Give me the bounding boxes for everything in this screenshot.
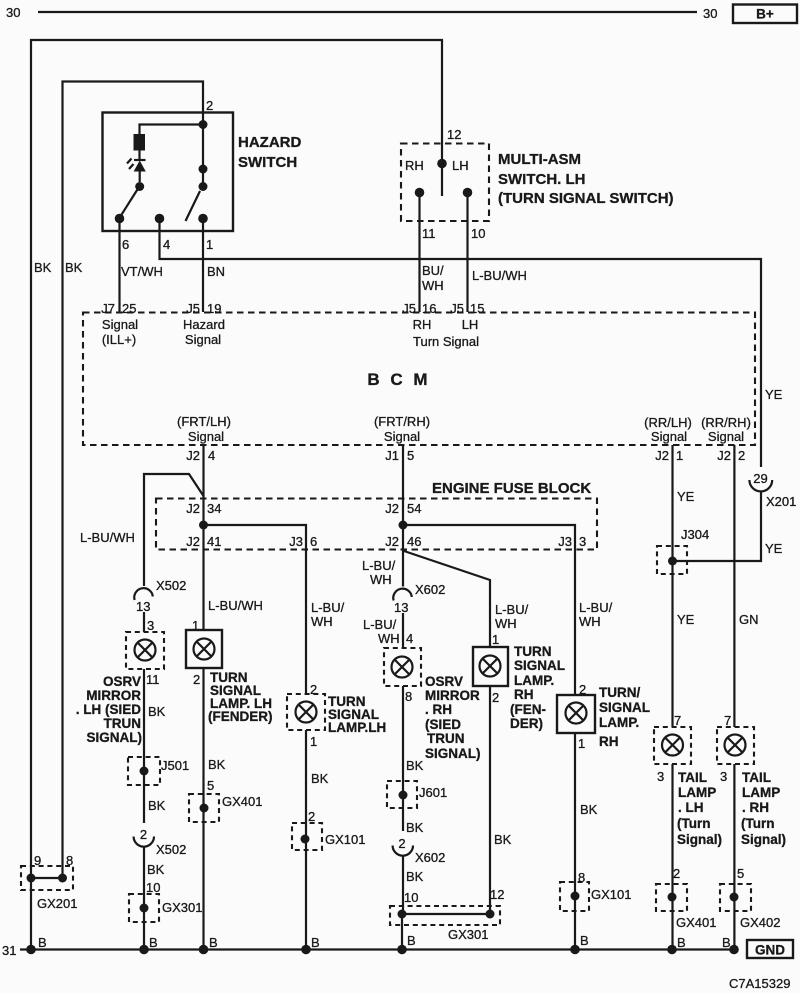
svg-text:3: 3: [720, 769, 727, 784]
pin (FRT/LH) Signal J2 4: [177, 414, 231, 463]
svg-text:1: 1: [578, 736, 585, 751]
wire GX201 to ground rail: [30, 878, 32, 950]
svg-text:J601: J601: [419, 785, 447, 800]
hazard right switch blade: [186, 191, 201, 221]
svg-text:OSRV: OSRV: [425, 674, 463, 689]
svg-text:TURN/: TURN/: [599, 685, 640, 700]
svg-text:5: 5: [407, 448, 414, 463]
hazard right contacts: [199, 165, 208, 192]
wire fender RH pin2 to GX301: [489, 686, 491, 914]
ground rail junctions: [26, 945, 739, 955]
label TAIL LAMP . LH (Turn Signal): [677, 770, 722, 847]
wire BCM J2/2 to tail lamp RH: [733, 445, 735, 727]
svg-text:J2: J2: [186, 501, 200, 516]
wire branch to X502 mirror LH: [144, 474, 204, 586]
pin J2 46: [385, 534, 421, 549]
svg-text:BK: BK: [406, 820, 424, 835]
wire X502 to mirror lamp: [143, 612, 145, 632]
svg-text:J2: J2: [717, 448, 731, 463]
svg-text:46: 46: [407, 534, 421, 549]
pin (RR/RH) Signal J2 2: [701, 415, 751, 463]
svg-text:11: 11: [146, 672, 160, 687]
svg-text:J3: J3: [289, 534, 303, 549]
svg-text:B C M: B C M: [367, 370, 430, 389]
svg-text:WH: WH: [378, 631, 400, 646]
svg-text:J1: J1: [385, 448, 399, 463]
svg-text:(ILL+): (ILL+): [102, 332, 136, 347]
svg-text:2: 2: [193, 672, 200, 687]
svg-text:31: 31: [2, 943, 16, 958]
svg-text:B: B: [580, 933, 589, 948]
svg-text:10: 10: [471, 226, 485, 241]
pin J5 15 LH: [413, 301, 484, 349]
svg-text:WH: WH: [579, 614, 601, 629]
svg-text:LAMP: LAMP: [678, 785, 716, 800]
ground GND box: [747, 940, 793, 958]
svg-text:L-BU/: L-BU/: [495, 602, 529, 617]
svg-text:X602: X602: [415, 582, 445, 597]
svg-text:X602: X602: [415, 850, 445, 865]
wire rail 30 (B+): [38, 11, 697, 13]
svg-text:BK: BK: [34, 260, 52, 275]
lamp TURN SIGNAL LAMP. RH (FENDER): [473, 647, 508, 686]
svg-text:30: 30: [703, 6, 717, 21]
svg-text:VT/WH: VT/WH: [121, 264, 163, 279]
engine fuse block box: [156, 480, 597, 550]
svg-text:1: 1: [492, 632, 499, 647]
svg-text:J2: J2: [385, 501, 399, 516]
svg-text:BK: BK: [208, 757, 226, 772]
svg-text:2: 2: [206, 98, 213, 113]
wire fuse LH to J3/6: [204, 525, 307, 694]
hazard pin 4 contact: [155, 214, 165, 224]
svg-text:2: 2: [398, 836, 405, 851]
svg-text:BK: BK: [147, 862, 165, 877]
svg-text:L-BU/: L-BU/: [362, 558, 396, 573]
svg-text:Signal): Signal): [741, 832, 786, 847]
svg-text:L-BU/: L-BU/: [579, 600, 613, 615]
svg-text:11: 11: [422, 226, 436, 241]
svg-text:TAIL: TAIL: [742, 770, 771, 785]
svg-text:41: 41: [207, 534, 221, 549]
svg-text:Signal: Signal: [102, 317, 138, 332]
svg-text:TAIL: TAIL: [678, 770, 707, 785]
svg-text:MIRROR: MIRROR: [425, 688, 480, 703]
label TURN/SIGNAL LAMP. RH: [599, 685, 650, 749]
hazard switch U/box: [103, 113, 302, 232]
svg-text:3: 3: [147, 618, 154, 633]
svg-text:6: 6: [122, 237, 129, 252]
ground connector GX301 RH: [390, 906, 500, 942]
lamp OSRV MIRROR LH: [126, 632, 164, 669]
svg-text:(SIED: (SIED: [425, 717, 461, 732]
wire label L-BU/WH mirror RH: [362, 558, 396, 587]
svg-text:1: 1: [206, 237, 213, 252]
svg-text:8: 8: [405, 689, 412, 704]
pin J7 25 Signal (ILL+): [101, 301, 138, 347]
pin (FRT/RH) Signal J1 5: [374, 414, 430, 463]
multi-asm common node and wiper: [437, 159, 447, 196]
label TURN SIGNAL LAMP. RH (FEN-DER): [510, 644, 565, 731]
svg-text:12: 12: [490, 887, 504, 902]
ground rail B labels: [38, 933, 731, 950]
connector X502 pin 2: [134, 827, 187, 857]
ground connector GX201: [21, 853, 77, 911]
svg-text:2: 2: [492, 690, 499, 705]
connector X502 pin 13: [134, 578, 186, 614]
svg-text:YE: YE: [765, 387, 783, 402]
svg-text:GX101: GX101: [591, 887, 631, 902]
svg-text:15: 15: [470, 301, 484, 316]
pin J3 6: [289, 534, 317, 549]
multi-asm pin labels 11 10: [422, 226, 485, 241]
svg-text:B: B: [209, 935, 218, 950]
svg-text:J3: J3: [558, 534, 572, 549]
svg-text:TRUN: TRUN: [427, 731, 465, 746]
lamp TURN SIGNAL LAMP.LH: [287, 694, 325, 730]
svg-text:TRUN: TRUN: [104, 716, 142, 731]
svg-text:Signal): Signal): [677, 832, 722, 847]
hazard left switch contact and blade: [115, 182, 145, 223]
svg-text:RH: RH: [599, 734, 619, 749]
svg-text:BU/: BU/: [422, 263, 444, 278]
svg-text:. RH: . RH: [425, 702, 452, 717]
wire label L-BU/WH and pin 4: [363, 617, 413, 646]
wire mirror RH pin 8 down: [402, 686, 404, 831]
svg-text:Signal: Signal: [384, 429, 420, 444]
svg-text:HAZARD: HAZARD: [238, 134, 301, 151]
svg-text:LAMP.: LAMP.: [514, 673, 554, 688]
ground connector GX401 RH: [656, 884, 716, 930]
svg-text:BK: BK: [148, 798, 166, 813]
svg-text:2: 2: [738, 448, 745, 463]
wire BK feed to hazard pin 2: [63, 82, 204, 878]
svg-text:16: 16: [422, 301, 436, 316]
wire X602 pin2 to GX301: [402, 856, 404, 914]
svg-text:J5: J5: [450, 301, 464, 316]
hazard right branch wire: [202, 125, 204, 187]
svg-text:J5: J5: [402, 301, 416, 316]
svg-text:L-BU/WH: L-BU/WH: [472, 268, 527, 283]
ground connector GX402: [720, 884, 780, 930]
svg-text:(Turn: (Turn: [741, 816, 775, 831]
svg-text:J304: J304: [681, 527, 709, 542]
wire BCM J1/5 down FRT/RH: [402, 445, 404, 587]
svg-text:Signal: Signal: [651, 429, 687, 444]
lamp TAIL LAMP . RH: [717, 727, 754, 764]
svg-text:B: B: [722, 935, 731, 950]
svg-text:WH: WH: [422, 278, 444, 293]
svg-text:7: 7: [674, 713, 681, 728]
svg-text:GN: GN: [739, 612, 759, 627]
svg-text:J501: J501: [161, 758, 189, 773]
connector X201 pin 29: [749, 471, 796, 509]
lamp TAIL LAMP . LH: [654, 727, 691, 764]
svg-text:J2: J2: [655, 448, 669, 463]
wire tail RH pin3 to ground rail: [733, 764, 735, 950]
svg-text:B+: B+: [756, 7, 774, 22]
svg-text:3: 3: [657, 769, 664, 784]
svg-text:L-BU/: L-BU/: [363, 617, 397, 632]
svg-text:J5: J5: [186, 301, 200, 316]
wire mirror LH pin 11 down: [143, 669, 145, 823]
connector J304: [657, 527, 709, 574]
wire BCM J2/4 down FRT/LH: [202, 445, 204, 630]
svg-text:BK: BK: [148, 704, 166, 719]
svg-text:. LH (SIED: . LH (SIED: [76, 702, 142, 717]
label TURN SIGNAL LAMP.LH: [328, 694, 386, 735]
svg-text:RH: RH: [405, 158, 424, 173]
svg-text:YE: YE: [765, 541, 783, 556]
svg-text:29: 29: [753, 471, 767, 486]
pin J5 16 RH: [402, 301, 436, 332]
svg-text:GX401: GX401: [222, 794, 262, 809]
svg-text:54: 54: [407, 501, 421, 516]
svg-text:19: 19: [207, 301, 221, 316]
svg-text:(FRT/LH): (FRT/LH): [177, 414, 231, 429]
svg-text:Signal: Signal: [188, 429, 224, 444]
svg-text:J2: J2: [186, 534, 200, 549]
resistor (hazard indicator): [134, 134, 146, 151]
svg-text:BK: BK: [65, 260, 83, 275]
wire fender LH pin2 to ground rail: [202, 668, 204, 950]
svg-text:10: 10: [146, 880, 160, 895]
wire X602 to mirror RH: [402, 613, 404, 648]
multi-asm switch box: [401, 144, 674, 222]
svg-text:BK: BK: [406, 869, 424, 884]
svg-text:C7A15329: C7A15329: [729, 976, 790, 991]
svg-text:BK: BK: [311, 771, 329, 786]
pin J2 54: [385, 501, 421, 516]
connector J501: [128, 757, 189, 785]
svg-text:YE: YE: [677, 612, 695, 627]
svg-text:10: 10: [404, 890, 418, 905]
ground connector GX301 LH: [129, 894, 202, 922]
connector X602 pin 2: [393, 836, 446, 865]
svg-text:GX301: GX301: [162, 900, 202, 915]
svg-text:(FENDER): (FENDER): [208, 709, 273, 724]
node fuse RH junction: [399, 521, 408, 530]
svg-text:BK: BK: [406, 758, 424, 773]
svg-text:LH: LH: [462, 317, 479, 332]
wire branch to RH fender lamp: [404, 551, 490, 647]
svg-text:LAMP: LAMP: [742, 785, 780, 800]
svg-text:SIGNAL: SIGNAL: [514, 658, 565, 673]
op BCM module box: [83, 313, 755, 446]
svg-text:SIGNAL): SIGNAL): [425, 746, 481, 761]
svg-text:TURN: TURN: [514, 644, 552, 659]
label TURN SIGNAL LAMP. LH (FENDER): [208, 670, 273, 724]
svg-text:B: B: [407, 933, 416, 948]
svg-text:GND: GND: [755, 943, 785, 958]
svg-text:(RR/RH): (RR/RH): [701, 415, 751, 430]
svg-text:30: 30: [6, 5, 20, 20]
svg-text:L-BU/WH: L-BU/WH: [208, 598, 263, 613]
svg-text:B: B: [677, 935, 686, 950]
hazard pin 1 contact: [198, 214, 208, 224]
svg-text:B: B: [149, 935, 158, 950]
wire X201 to J304 junction: [673, 492, 762, 562]
svg-text:1: 1: [310, 734, 317, 749]
svg-text:6: 6: [310, 534, 317, 549]
svg-text:J2: J2: [186, 448, 200, 463]
svg-text:MULTI-ASM: MULTI-ASM: [498, 151, 581, 168]
label TAIL LAMP . RH (Turn Signal): [741, 770, 786, 847]
pin (RR/LH) Signal J2 1: [644, 415, 692, 463]
svg-text:MIRROR: MIRROR: [86, 688, 141, 703]
svg-text:13: 13: [394, 600, 408, 615]
wire turn/signal RH pin1 to ground rail: [574, 733, 576, 950]
svg-text:X502: X502: [156, 842, 186, 857]
svg-text:J2: J2: [385, 534, 399, 549]
svg-text:GX101: GX101: [325, 832, 365, 847]
ground connector GX101 RH: [560, 882, 631, 911]
svg-text:RH: RH: [413, 317, 432, 332]
multi-asm RH LH labels: [405, 158, 469, 173]
node B+ box: [733, 5, 797, 24]
svg-text:5: 5: [737, 866, 744, 881]
wire label L-BU/WH turn signal RH: [579, 600, 613, 629]
svg-text:GX201: GX201: [37, 896, 77, 911]
svg-text:12: 12: [447, 127, 461, 142]
pin J2 34: [186, 501, 221, 516]
svg-text:2: 2: [308, 809, 315, 824]
wire fuse RH to J3/3: [403, 525, 575, 695]
svg-text:X201: X201: [766, 494, 796, 509]
svg-text:X502: X502: [156, 578, 186, 593]
svg-text:(RR/LH): (RR/LH): [644, 415, 692, 430]
svg-text:4: 4: [406, 631, 413, 646]
wire hazard pin6 to BCM J7/25 (VT/WH): [118, 219, 120, 312]
svg-text:4: 4: [163, 237, 170, 252]
svg-text:13: 13: [136, 599, 150, 614]
svg-text:BK: BK: [580, 802, 598, 817]
svg-text:SWITCH: SWITCH: [238, 154, 297, 171]
label OSRV MIRROR .RH (SIED TRUN SIGNAL): [425, 674, 481, 761]
svg-text:RH: RH: [514, 687, 534, 702]
svg-text:2: 2: [673, 866, 680, 881]
svg-text:Signal: Signal: [708, 429, 744, 444]
svg-text:WH: WH: [311, 614, 333, 629]
svg-text:B: B: [38, 935, 47, 950]
svg-text:5: 5: [207, 778, 214, 793]
ground connector GX401 LH: [189, 794, 262, 822]
ground connector GX101 LH: [292, 823, 365, 850]
svg-text:GX402: GX402: [740, 915, 780, 930]
svg-text:3: 3: [579, 534, 586, 549]
wire BK feed left to multi-asm pin 12: [31, 40, 442, 877]
connector X602 pin 13: [393, 582, 445, 615]
wire lamp.LH pin1 to ground rail: [305, 730, 307, 950]
svg-text:L-BU/: L-BU/: [311, 600, 345, 615]
svg-text:Turn Signal: Turn Signal: [413, 334, 479, 349]
wire ground rail 31: [20, 948, 734, 950]
svg-text:BN: BN: [207, 264, 225, 279]
svg-text:SIGNAL): SIGNAL): [87, 730, 143, 745]
wire multi-asm pin10 to BCM J5/15 (L-BU/WH): [466, 193, 468, 312]
svg-text:Hazard: Hazard: [183, 317, 225, 332]
svg-text:GX301: GX301: [448, 927, 488, 942]
wire label BU/WH: [422, 263, 444, 293]
lamp OSRV MIRROR RH: [384, 648, 421, 686]
svg-text:J7: J7: [101, 301, 115, 316]
connector J601: [387, 781, 447, 808]
svg-text:LH: LH: [452, 158, 469, 173]
label OSRV MIRROR . LH (SIED TRUN SIGNAL): [76, 674, 142, 745]
svg-text:(FRT/RH): (FRT/RH): [374, 414, 430, 429]
pin J2 41: [186, 534, 221, 549]
svg-text:B: B: [311, 935, 320, 950]
svg-text:OSRV: OSRV: [103, 674, 141, 689]
svg-text:BK: BK: [494, 832, 512, 847]
svg-text:. RH: . RH: [742, 800, 769, 815]
wire X502 pin2 to GX301: [143, 847, 145, 950]
svg-text:25: 25: [122, 301, 136, 316]
wire hazard pin4 flasher feed to X201: [160, 219, 762, 467]
multi-asm pin 11 contact: [415, 188, 425, 198]
multi-asm pin 10 contact: [463, 188, 473, 198]
wire label L-BU/WH fender RH: [495, 602, 529, 631]
hazard switch internal node pin2: [140, 120, 208, 134]
svg-text:WH: WH: [495, 616, 517, 631]
svg-text:. LH: . LH: [678, 800, 704, 815]
svg-text:LAMP.: LAMP.: [599, 715, 639, 730]
svg-text:LAMP.LH: LAMP.LH: [328, 720, 386, 735]
lamp TURN/SIGNAL LAMP. RH: [557, 695, 595, 733]
svg-text:YE: YE: [677, 489, 695, 504]
wire tail LH pin3 to ground rail: [671, 764, 673, 950]
lamp TURN SIGNAL LAMP. LH (FENDER): [186, 630, 222, 668]
svg-text:GX401: GX401: [676, 915, 716, 930]
svg-text:Signal: Signal: [185, 332, 221, 347]
svg-text:SIGNAL: SIGNAL: [599, 700, 650, 715]
svg-text:(TURN SIGNAL SWITCH): (TURN SIGNAL SWITCH): [498, 190, 674, 207]
pin J5 19 Hazard Signal: [183, 301, 225, 347]
wire label L-BU/WH lamp.LH: [311, 600, 345, 629]
svg-text:7: 7: [724, 713, 731, 728]
svg-text:34: 34: [207, 501, 221, 516]
wire BCM J2/1 to tail lamp LH: [671, 445, 673, 727]
wire multi-asm pin11 to BCM J5/16 (BU/WH): [418, 193, 420, 312]
wire hazard pin1 to BCM J5/19 (BN): [202, 219, 204, 312]
svg-text:ENGINE FUSE BLOCK: ENGINE FUSE BLOCK: [432, 480, 591, 497]
svg-text:DER): DER): [510, 716, 543, 731]
svg-text:2: 2: [140, 827, 147, 842]
node fuse LH junction: [199, 521, 208, 530]
wire GX301 to ground rail: [401, 914, 403, 950]
svg-text:WH: WH: [370, 572, 392, 587]
wire: [138, 151, 140, 160]
pin J3 3: [558, 534, 586, 549]
svg-text:SWITCH. LH: SWITCH. LH: [498, 171, 586, 188]
svg-text:L-BU/WH: L-BU/WH: [80, 530, 135, 545]
svg-text:4: 4: [208, 448, 215, 463]
hazard pin labels 6 4 1: [122, 237, 213, 252]
svg-text:1: 1: [676, 448, 683, 463]
svg-text:(Turn: (Turn: [677, 816, 711, 831]
LED indicator diode: [127, 159, 146, 183]
svg-text:(FEN-: (FEN-: [510, 702, 546, 717]
